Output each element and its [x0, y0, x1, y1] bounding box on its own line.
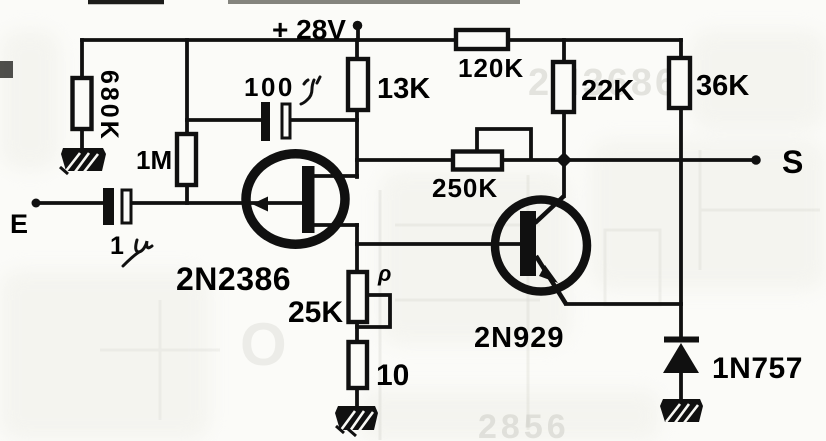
resistor 120K	[456, 30, 508, 49]
resistor 680K	[73, 78, 92, 129]
resistor 13K	[348, 59, 368, 110]
wire Q2 emitter to diode line	[566, 302, 681, 306]
svg-text:ρ: ρ	[377, 261, 391, 286]
svg-text:1: 1	[110, 232, 124, 260]
terminal dot +28V	[353, 21, 363, 31]
wire 680K branch top	[80, 40, 84, 78]
wire 22K branch from rail	[562, 40, 566, 62]
resistor 10	[349, 342, 368, 388]
wire diode to ground	[679, 372, 683, 400]
wire 36K down through S line to diode	[679, 108, 683, 337]
ground under 10	[335, 406, 378, 436]
wire 36K branch from rail	[679, 40, 683, 58]
wire FET source	[314, 223, 357, 227]
wire source down to 25K	[355, 225, 359, 272]
wire 100u cap left lead	[187, 118, 261, 122]
wire 13K bottom to drain node	[355, 110, 359, 177]
ground under 680K	[60, 148, 106, 174]
svg-text:25K: 25K	[288, 296, 343, 329]
wire +28V stub	[356, 25, 360, 40]
emitter stroke	[536, 256, 566, 304]
resistor 22K	[553, 62, 574, 112]
svg-text:1N757: 1N757	[712, 352, 803, 385]
wire output node to S	[357, 158, 756, 162]
diode D 1N757 (zener)	[663, 337, 699, 374]
svg-text:2N2386: 2N2386	[176, 261, 291, 297]
svg-text:O: O	[240, 311, 287, 378]
wire FET drain	[314, 174, 357, 178]
resistor 36K	[669, 58, 690, 108]
resistor 1M	[177, 134, 196, 185]
svg-text:120K: 120K	[458, 53, 524, 83]
svg-text:100: 100	[244, 72, 295, 102]
capacitor C 100u	[261, 102, 290, 141]
svg-text:10: 10	[376, 359, 409, 392]
svg-text:2N929: 2N929	[474, 322, 564, 354]
svg-text:36K: 36K	[696, 70, 749, 102]
svg-text:+ 28V: + 28V	[272, 14, 346, 45]
ground under diode	[660, 399, 703, 423]
collector stroke	[535, 196, 564, 223]
potentiometer 25K	[349, 272, 368, 322]
wire 250K wiper loop	[477, 129, 531, 159]
scan artifact: black bar top-left	[88, 0, 164, 4]
svg-text:E: E	[10, 209, 28, 239]
svg-text:13K: 13K	[377, 73, 430, 105]
wire 22K bottom to node	[562, 112, 566, 160]
wire 25K to 10	[355, 322, 359, 342]
svg-text:680K: 680K	[95, 70, 123, 142]
svg-text:1M: 1M	[136, 145, 172, 175]
scan artifact: dark strip at top edge	[228, 0, 520, 4]
wire source node to base of Q2	[357, 242, 521, 246]
transistor Q1 2N2386 (FET)	[246, 154, 345, 244]
wire 13K branch from rail	[355, 40, 359, 59]
wire input E to cap	[36, 201, 103, 205]
capacitor C 1u input	[103, 188, 131, 225]
wire 680K to ground	[80, 129, 84, 150]
wire 25K wiper loop	[357, 295, 390, 327]
svg-text:22K: 22K	[581, 75, 634, 107]
svg-text:2856: 2856	[478, 408, 570, 441]
wire Q2 collector riser	[562, 160, 566, 196]
transistor Q2 2N929 (NPN)	[495, 196, 587, 304]
wire 100u cap right lead	[290, 118, 357, 122]
wire top +28V rail	[82, 38, 681, 42]
wire cap to FET gate	[131, 201, 302, 205]
wire 10 to ground	[355, 388, 359, 406]
svg-text:250K: 250K	[432, 173, 498, 203]
wire 1M bottom to input line	[185, 185, 189, 203]
terminal dot E	[32, 199, 41, 208]
potentiometer 250K	[453, 152, 502, 170]
junction node 22K/250K/collector	[556, 152, 572, 168]
terminal dot S	[751, 155, 761, 165]
svg-text:S: S	[782, 144, 803, 180]
left-edge scan mark	[0, 61, 13, 78]
wire 1M branch from rail	[185, 40, 189, 134]
